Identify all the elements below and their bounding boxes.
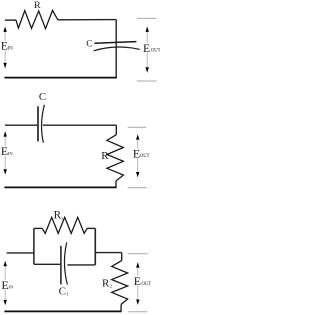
svg-text:R: R	[34, 0, 41, 11]
node E_IN (left input voltage indicator, circuit 3)	[0, 261, 14, 305]
wire right vertical lower (circuit 2)	[115, 181, 117, 188]
wire right vertical (circuit 1)	[115, 20, 117, 78]
wire bottom rail (circuit 2)	[4, 186, 116, 188]
node E_OUT (right output voltage indicator, circuit 3)	[128, 254, 152, 312]
wire box bottom-right segment (circuit 3)	[67, 264, 95, 266]
wire bottom rail (circuit 1)	[4, 77, 116, 79]
capacitor C1 (circuit 3, curved right plate)	[64, 242, 67, 284]
wire R2 vertical upper (circuit 3)	[121, 253, 123, 261]
wire input (circuit 3)	[7, 252, 34, 254]
svg-text:IN: IN	[8, 46, 14, 51]
capacitor C (circuit 1, straight top plate)	[94, 42, 136, 44]
svg-text:IN: IN	[8, 285, 14, 290]
wire box top-right segment (circuit 3)	[87, 227, 95, 229]
svg-text:OUT: OUT	[142, 282, 152, 287]
svg-text:E: E	[134, 274, 141, 288]
capacitor C (circuit 2, curved right plate)	[42, 105, 45, 143]
wire right vertical upper (circuit 2)	[115, 125, 117, 135]
wire top rail right (circuit 2)	[43, 124, 117, 126]
svg-text:E: E	[143, 41, 150, 55]
svg-text:C: C	[59, 285, 66, 297]
resistor R (circuit 1, horizontal zigzag)	[16, 10, 58, 28]
svg-text:2: 2	[110, 284, 113, 289]
wire output (circuit 3)	[95, 252, 121, 254]
capacitor C1 (circuit 3, straight left plate)	[60, 246, 62, 285]
wire bottom rail (circuit 3)	[4, 310, 121, 312]
svg-text:OUT: OUT	[140, 154, 150, 159]
wire top rail to right corner (circuit 1)	[58, 19, 116, 21]
wire box bottom-left segment (circuit 3)	[34, 263, 60, 265]
svg-text:C: C	[86, 40, 92, 50]
svg-text:R: R	[101, 150, 109, 162]
svg-text:OUT: OUT	[151, 49, 160, 54]
wire top rail left (circuit 2)	[5, 124, 37, 126]
wire box right edge (circuit 3)	[94, 228, 96, 265]
wire box left edge (circuit 3)	[33, 228, 35, 264]
svg-text:IN: IN	[8, 151, 14, 156]
wire box top-left segment (circuit 3)	[34, 227, 42, 229]
node E_IN (left input voltage indicator, circuit 2)	[0, 131, 13, 174]
svg-text:1: 1	[66, 291, 69, 296]
wire top-left (circuit 1)	[5, 19, 16, 21]
capacitor C (circuit 2, straight left plate)	[37, 106, 39, 141]
node E_OUT (right output voltage indicator, circuit 1)	[137, 18, 161, 81]
resistor R1 (circuit 3, horizontal zigzag)	[42, 217, 87, 233]
label R1 (circuit 3)	[53, 210, 64, 222]
capacitor C (circuit 1, curved bottom plate)	[94, 47, 140, 51]
node E_IN (left input voltage indicator, circuit 1)	[0, 27, 13, 69]
resistor R (circuit 2, vertical zigzag)	[107, 135, 124, 181]
resistor R2 (circuit 3, vertical zigzag)	[112, 261, 128, 305]
node E_OUT (right output voltage indicator, circuit 2)	[128, 127, 150, 188]
wire R2 vertical lower (circuit 3)	[120, 304, 122, 311]
svg-text:C: C	[39, 91, 46, 103]
